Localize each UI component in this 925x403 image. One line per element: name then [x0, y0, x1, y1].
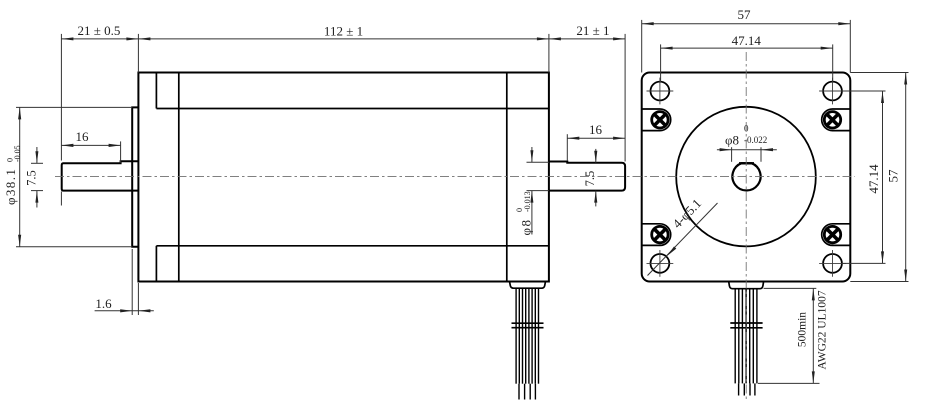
svg-text:1.6: 1.6 [95, 296, 112, 311]
svg-text:21 ± 1: 21 ± 1 [576, 23, 609, 38]
svg-text:47.14: 47.14 [866, 164, 881, 194]
svg-text:-0.022: -0.022 [744, 135, 767, 145]
svg-text:0: 0 [744, 124, 749, 134]
svg-text:7.5: 7.5 [583, 171, 597, 187]
svg-text:16: 16 [76, 129, 90, 144]
svg-text:57: 57 [886, 169, 901, 183]
svg-text:-0.05: -0.05 [13, 145, 22, 162]
svg-text:AWG22 UL1007: AWG22 UL1007 [817, 290, 829, 369]
svg-text:16: 16 [589, 122, 603, 137]
svg-text:-0.013: -0.013 [523, 191, 532, 212]
svg-text:47.14: 47.14 [732, 33, 762, 48]
svg-text:φ8: φ8 [519, 218, 534, 235]
svg-text:φ8: φ8 [725, 133, 739, 148]
svg-text:7.5: 7.5 [24, 170, 38, 186]
svg-text:500min: 500min [797, 312, 809, 347]
svg-text:21 ± 0.5: 21 ± 0.5 [78, 23, 121, 38]
svg-text:57: 57 [738, 7, 752, 22]
svg-text:φ38.1: φ38.1 [3, 168, 18, 205]
svg-text:112 ± 1: 112 ± 1 [324, 24, 363, 39]
